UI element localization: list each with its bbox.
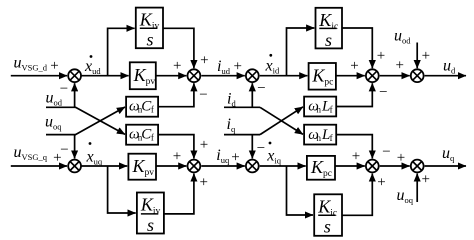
wire i_d horizontal [224, 106, 260, 108]
wire u_od horizontal [46, 106, 76, 108]
wire branch to Kic2 [287, 166, 314, 215]
wire i_q horizontal [224, 134, 260, 136]
svg-text:ωnCf: ωnCf [129, 99, 154, 115]
summing junction S3q [246, 160, 259, 173]
wire u_oq up to S5q [416, 174, 418, 203]
svg-text:+: + [233, 59, 241, 75]
svg-text:+: + [422, 48, 430, 64]
block Kiv1 (Kiv/s) [136, 8, 163, 50]
wire u_od down to S5d [416, 43, 418, 69]
svg-text:xuq: xuq [86, 148, 103, 166]
block Kpc2 [307, 156, 335, 180]
svg-text:−: − [60, 142, 68, 158]
block Kpv1 [130, 62, 156, 89]
svg-text:+: + [350, 58, 358, 74]
wire Kiv1 out down to S2d [163, 28, 194, 68]
wire S3d to Kpc1 [260, 75, 308, 77]
wire Kpc1 to S4d [336, 75, 365, 77]
wire S1d to Kpv1 [82, 75, 129, 77]
block wCf2 (wn Cf) [126, 125, 158, 145]
svg-text:id: id [227, 90, 236, 108]
summing junction S4d [366, 69, 379, 82]
wire u_oq diagonal to wCf1 [76, 107, 126, 135]
wire input u_VSG_d [11, 75, 67, 77]
svg-text:uVSG_q: uVSG_q [14, 144, 48, 162]
wire Kpc2 to S4q [335, 165, 365, 167]
svg-text:xiq: xiq [266, 148, 281, 166]
svg-text:+: + [50, 58, 58, 74]
wire branch to Kiv1 [108, 28, 135, 75]
block Kpc1 [309, 63, 336, 90]
svg-text:+: + [377, 48, 385, 64]
block wLf1 (wn Lf) [304, 97, 336, 117]
svg-text:+: + [200, 52, 208, 68]
summing junction S1q [68, 160, 81, 173]
block wLf2 (wn Lf) [304, 125, 336, 145]
wire Kpv2 to S2q [156, 165, 186, 167]
wire wCf2 out down to S2q [158, 135, 194, 159]
wire i_d diagonal to wLf2 [260, 107, 303, 134]
svg-text:+: + [199, 174, 207, 190]
wire branch to Kiv2 [108, 166, 136, 213]
wire S3q to Kpc2 [260, 165, 306, 167]
svg-text:+: + [421, 171, 429, 187]
wire i_d up into S3d [251, 83, 253, 107]
wire wLf1 out up to S4d [336, 83, 372, 106]
svg-text:−: − [257, 81, 265, 97]
label x_uq dot [86, 142, 103, 166]
svg-text:s: s [147, 30, 154, 50]
svg-text:iud: iud [217, 58, 231, 76]
svg-text:uVSG_d: uVSG_d [14, 55, 48, 73]
svg-text:+: + [200, 137, 208, 153]
block Kic2 (Kic/s) [314, 194, 342, 236]
svg-text:+: + [173, 148, 181, 164]
wire Kic1 out down to S4d [342, 28, 372, 68]
label x_id dot [265, 54, 280, 76]
svg-text:−: − [60, 81, 68, 97]
wire i_q down into S3q [251, 135, 253, 159]
block Kpv2 [128, 154, 156, 180]
summing junction S5q [411, 160, 424, 173]
svg-text:ωnCf: ωnCf [129, 126, 154, 142]
svg-text:+: + [231, 149, 239, 165]
wire S2q to S3q (i_uq) [201, 165, 245, 167]
wire u_od diagonal to wCf2 [76, 107, 126, 134]
svg-text:+: + [173, 58, 181, 74]
svg-text:uq: uq [442, 145, 455, 163]
wire Kiv2 out up to S2q [164, 174, 194, 214]
svg-text:uod: uod [394, 28, 411, 46]
summing junction S1d [68, 69, 81, 82]
wire Kpv1 to S2d [156, 75, 187, 77]
svg-text:+: + [395, 57, 403, 73]
svg-text:xid: xid [265, 58, 280, 76]
svg-text:+: + [352, 148, 360, 164]
svg-text:−: − [199, 87, 207, 103]
svg-text:+: + [377, 174, 385, 190]
wire u_oq horizontal [46, 134, 76, 136]
wire output u_d [425, 75, 466, 77]
label x_iq dot [266, 142, 281, 166]
summing junction S5d [411, 69, 424, 82]
summing junction S3d [246, 69, 259, 82]
wire branch to Kic1 [287, 28, 315, 76]
svg-text:s: s [325, 30, 332, 50]
wire Kic2 out up to S4q [342, 174, 372, 216]
wire S4d to S5d [380, 75, 410, 77]
label x_ud dot [84, 55, 101, 76]
svg-text:s: s [147, 215, 154, 235]
svg-text:+: + [397, 150, 405, 166]
summing junction S2d [188, 69, 201, 82]
wire wLf2 out down to S4q [336, 135, 372, 159]
summing junction S4q [366, 160, 379, 173]
svg-text:−: − [379, 84, 387, 100]
wire input u_VSG_q [11, 165, 67, 167]
svg-text:uoq: uoq [45, 114, 62, 132]
wire wCf1 out up to S2d [158, 83, 194, 107]
block Kic1 (Kic/s) [316, 8, 343, 50]
svg-text:iuq: iuq [216, 147, 230, 165]
wire S4q to S5q [380, 165, 410, 167]
wire u_od up into S1d [74, 83, 76, 107]
svg-text:xud: xud [84, 58, 101, 76]
svg-text:s: s [324, 217, 331, 237]
svg-text:ud: ud [443, 58, 456, 76]
wire S2d to S3d (i_ud) [201, 75, 245, 77]
wire u_oq down into S1q [74, 135, 76, 159]
svg-text:−: − [257, 140, 265, 156]
block wCf1 (wn Cf) [126, 97, 158, 117]
wire S1q to Kpv2 [82, 165, 128, 167]
summing junction S2q [188, 160, 201, 173]
wire output u_q [425, 165, 466, 167]
svg-text:uoq: uoq [397, 187, 414, 205]
svg-text:iq: iq [227, 116, 236, 134]
wire i_q diagonal to wLf1 [260, 107, 303, 135]
block Kiv2 (Kiv/s) [137, 193, 164, 236]
svg-text:−: − [382, 144, 390, 160]
